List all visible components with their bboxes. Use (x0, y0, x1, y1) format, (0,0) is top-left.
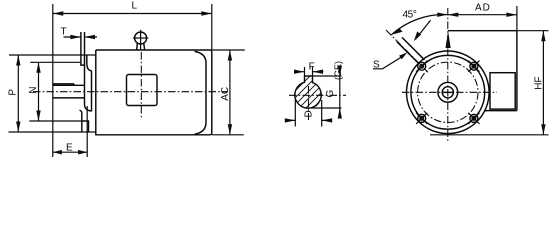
fan cowl seam (195, 51, 207, 134)
S feature parallel lines (397, 37, 425, 63)
eyebolt (133, 30, 148, 50)
centerlines right view (386, 8, 497, 143)
bolt hole bottom-left (416, 113, 427, 124)
centerline up arrow (446, 31, 451, 48)
S label and leader (373, 52, 407, 70)
hatching (290, 68, 327, 115)
terminal box (side square) (127, 52, 158, 119)
dimension F (294, 67, 324, 76)
dimension AC (212, 50, 245, 135)
centerlines shaft section (289, 86, 346, 120)
shaft end face / L and E extension line (52, 4, 54, 157)
dimension D (285, 100, 332, 127)
svg-text:F: F (309, 61, 315, 72)
motor body (96, 50, 212, 135)
dimension E (53, 106, 87, 157)
svg-text:L: L (132, 1, 138, 12)
flange / spigot junction (80, 32, 92, 132)
terminal box front view (448, 31, 517, 111)
dimension L (53, 4, 212, 50)
svg-text:E: E (66, 143, 73, 154)
dimension HF (430, 31, 549, 135)
centerline left view (33, 91, 228, 93)
outer flange circle (407, 51, 490, 134)
flange bottom edge + P bottom extension (9, 131, 96, 133)
bolt hole top-right (468, 61, 479, 72)
dimension AD (448, 6, 517, 31)
dimension P (16, 55, 20, 132)
svg-text:(GE): (GE) (333, 61, 343, 80)
svg-text:N: N (28, 87, 39, 94)
second circle (411, 55, 485, 129)
svg-text:45°: 45° (403, 10, 417, 21)
45 degree arc dimension (391, 13, 448, 35)
leader from 45 arc to S lines (414, 20, 431, 41)
bolt hole bottom-right (468, 113, 479, 124)
shaft (53, 85, 85, 98)
flange top edge + P top extension (9, 54, 96, 56)
bolt hole top-left (416, 61, 427, 72)
bolt circle (418, 62, 478, 122)
shaft hole circle (442, 87, 453, 98)
svg-text:P: P (8, 89, 19, 96)
keyway on shaft (53, 84, 74, 85)
svg-text:AC: AC (220, 87, 231, 101)
dimension T (64, 35, 98, 39)
hub circle (438, 82, 458, 102)
svg-text:AD: AD (475, 3, 491, 14)
svg-text:HF: HF (533, 76, 544, 89)
svg-text:T: T (61, 26, 67, 37)
shaft section circle with key (295, 76, 321, 108)
svg-text:G: G (325, 90, 336, 98)
dimension N (29, 62, 82, 121)
svg-text:D: D (304, 110, 315, 117)
conduit box side rectangle (490, 73, 515, 109)
dimension G (311, 66, 342, 119)
